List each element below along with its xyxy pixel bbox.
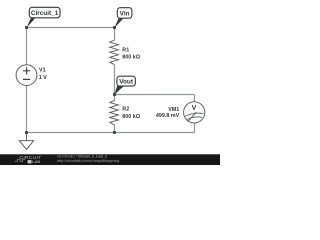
voltmeter VM1 <box>184 102 205 123</box>
junction node Vout <box>113 93 116 96</box>
wire VM1 top lead <box>194 95 196 102</box>
wire VM1 bottom lead <box>194 123 196 132</box>
junction dot ground <box>25 131 28 134</box>
node label Vin <box>114 8 132 28</box>
svg-text:800 kΩ: 800 kΩ <box>122 114 140 120</box>
svg-text:Circuit_1: Circuit_1 <box>31 10 59 17</box>
svg-text:http://circuitlab.com/c/map/8b: http://circuitlab.com/c/map/8bkqshwg <box>57 159 119 163</box>
junction node Vin corner <box>113 26 116 29</box>
footer logo waveform <box>15 159 25 161</box>
wire R1 bottom lead <box>114 65 116 95</box>
svg-text:V: V <box>192 105 197 112</box>
resistor R2 <box>110 100 119 124</box>
voltage source V1 <box>16 65 37 86</box>
ground <box>19 133 33 150</box>
wire R2 top lead <box>114 95 116 101</box>
wire R1 top lead <box>114 28 116 41</box>
junction dot R2 bottom <box>113 131 116 134</box>
svg-text:V1: V1 <box>39 68 46 74</box>
wire bottom <box>27 132 195 134</box>
svg-text:LAB: LAB <box>32 160 40 164</box>
svg-text:VM1: VM1 <box>168 107 179 113</box>
svg-text:1 V: 1 V <box>39 75 47 81</box>
svg-text:R2: R2 <box>122 107 129 113</box>
wire top (Vin net) <box>27 27 115 29</box>
svg-text:R1: R1 <box>122 47 129 53</box>
node label Vout <box>114 76 135 95</box>
svg-text:800 kΩ: 800 kΩ <box>122 55 140 61</box>
svg-text:rahmihailo / Circuit_1_Lab_2: rahmihailo / Circuit_1_Lab_2 <box>57 154 107 158</box>
junction dot top-left corner <box>25 26 28 29</box>
footer logo bolt block <box>28 160 32 163</box>
wire left upper <box>26 28 28 65</box>
resistor R1 <box>110 40 119 64</box>
node label Circuit_1 <box>27 7 61 28</box>
footer bar <box>0 154 220 165</box>
svg-text:499.8 mV: 499.8 mV <box>156 113 180 119</box>
svg-text:Vout: Vout <box>119 79 134 86</box>
wire left lower <box>26 86 28 133</box>
wire R2 bottom lead <box>114 125 116 133</box>
svg-text:Vin: Vin <box>120 11 130 18</box>
wire Vout net <box>115 94 195 96</box>
